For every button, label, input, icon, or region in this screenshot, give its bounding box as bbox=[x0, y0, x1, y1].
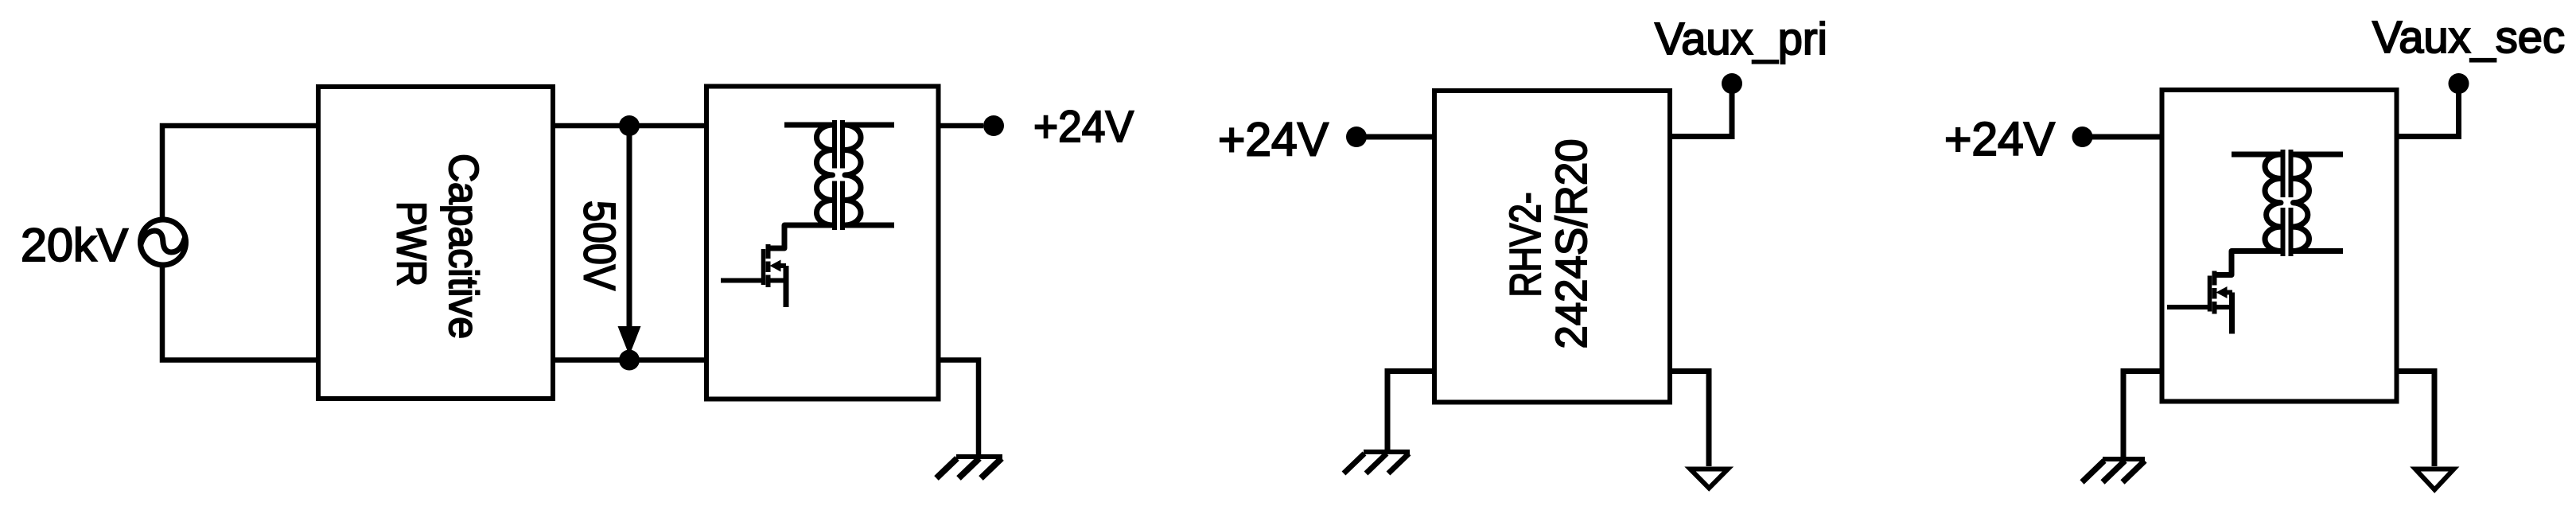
body/source link bbox=[779, 263, 786, 268]
node 500V top bbox=[619, 115, 640, 136]
wire converter to +24V node bbox=[940, 123, 983, 129]
primary winding bbox=[2215, 154, 2281, 275]
svg-text:+24V: +24V bbox=[1033, 101, 1134, 151]
channel bar dashes bbox=[766, 244, 771, 287]
wire RHV2 box to chassis ground bbox=[1387, 372, 1434, 451]
source dash link bbox=[769, 278, 786, 283]
transformer T1 bbox=[769, 120, 894, 248]
ground chassis right circuit bbox=[2082, 459, 2145, 482]
wire box to converter bottom bbox=[555, 357, 705, 363]
wire AC top to Capacitive PWR box bbox=[162, 126, 316, 220]
node +24V right bbox=[2072, 127, 2093, 147]
AC source V1 20kV bbox=[141, 220, 186, 265]
ground chassis middle circuit bbox=[1344, 452, 1410, 473]
core line right bbox=[2289, 150, 2294, 256]
label Capacitive PWR bbox=[389, 154, 488, 339]
node +24V left bbox=[983, 115, 1004, 136]
node Vaux_sec bbox=[2449, 73, 2469, 94]
channel bar dashes bbox=[2212, 271, 2217, 314]
svg-text:2424S/R20: 2424S/R20 bbox=[1547, 139, 1596, 349]
body/source link bbox=[2225, 290, 2232, 295]
wire box to converter top bbox=[555, 123, 705, 129]
secondary winding bbox=[845, 125, 894, 225]
gate bar bbox=[761, 249, 766, 285]
wire AC bottom to Capacitive PWR box bbox=[162, 264, 316, 360]
block RHV2-2424S/R20 bbox=[1434, 91, 1670, 403]
wire converter box to chassis ground bbox=[2123, 372, 2162, 457]
source dash link bbox=[2215, 305, 2232, 310]
500V measurement arrow bbox=[618, 131, 641, 356]
drain connection bbox=[2215, 273, 2231, 278]
wire converter to ground bbox=[940, 360, 979, 455]
transistor Q2 MOSFET bbox=[2167, 271, 2232, 334]
transformer T2 bbox=[2215, 150, 2343, 275]
primary winding bbox=[769, 125, 833, 248]
wire RHV2 box to Vaux_pri node bbox=[1670, 92, 1732, 137]
drain connection bbox=[769, 246, 784, 251]
svg-text:Vaux_pri: Vaux_pri bbox=[1655, 14, 1827, 64]
transistor Q1 MOSFET bbox=[721, 244, 786, 307]
body arrow bbox=[2216, 286, 2228, 298]
core line left bbox=[832, 120, 837, 230]
svg-text:500V: 500V bbox=[575, 200, 625, 291]
block Capacitive PWR bbox=[318, 87, 553, 399]
block DC-DC converter right (flyback) bbox=[2162, 90, 2397, 402]
node Vaux_pri bbox=[1722, 73, 1742, 94]
svg-text:RHV2-: RHV2- bbox=[1500, 193, 1550, 298]
svg-text:+24V: +24V bbox=[1218, 114, 1329, 166]
source lead bbox=[2229, 293, 2235, 334]
svg-text:+24V: +24V bbox=[1944, 113, 2056, 165]
label RHV2-2424S/R20 bbox=[1500, 139, 1596, 349]
ground earth arrow right circuit bbox=[2415, 469, 2454, 490]
source lead bbox=[784, 266, 789, 307]
wire converter box to earth ground bbox=[2397, 372, 2435, 467]
ground chassis left circuit bbox=[936, 457, 1002, 478]
wire converter box to Vaux_sec node bbox=[2397, 92, 2459, 137]
core line left bbox=[2281, 150, 2286, 256]
gate lead bbox=[721, 278, 764, 283]
svg-text:Vaux_sec: Vaux_sec bbox=[2372, 12, 2565, 63]
gate bar bbox=[2208, 276, 2212, 312]
node 500V bottom bbox=[619, 350, 640, 371]
gate lead bbox=[2167, 305, 2210, 310]
secondary winding bbox=[2294, 154, 2344, 251]
wire RHV2 box to earth ground bbox=[1670, 372, 1709, 467]
svg-text:Capacitive: Capacitive bbox=[441, 154, 487, 339]
svg-text:PWR: PWR bbox=[389, 201, 435, 286]
core line right bbox=[840, 120, 845, 230]
wire +24V to RHV2 box bbox=[1365, 134, 1434, 140]
svg-text:20kV: 20kV bbox=[21, 220, 128, 271]
ground earth arrow middle circuit bbox=[1691, 469, 1729, 489]
node +24V middle bbox=[1346, 127, 1367, 147]
block DC-DC converter (flyback) bbox=[706, 87, 939, 399]
body arrow bbox=[770, 260, 781, 272]
wire +24V to converter box bbox=[2092, 134, 2162, 140]
